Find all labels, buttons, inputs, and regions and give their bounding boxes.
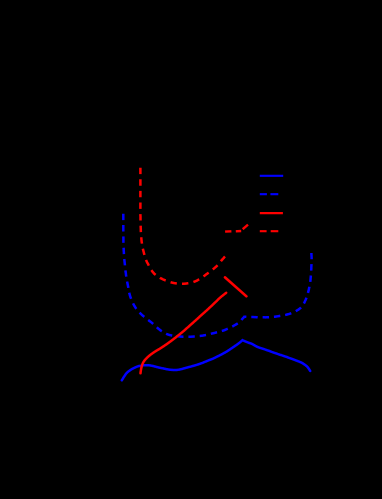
red dashed detached flat piece dash 1 — [225, 230, 231, 233]
red solid rising curve — [141, 293, 227, 373]
legend sample red solid — [260, 212, 283, 214]
red dashed detached flat piece dash 3 — [243, 225, 248, 230]
legend sample red dashed — [260, 230, 279, 232]
legend sample blue solid — [260, 175, 283, 177]
blue solid curve — [122, 340, 310, 380]
red dashed U curve — [140, 168, 225, 284]
red solid detached segment — [225, 277, 246, 296]
red dashed detached flat piece dash 2 — [236, 230, 241, 233]
legend sample blue dashed — [260, 193, 279, 195]
blue dashed bathtub curve — [123, 214, 311, 337]
